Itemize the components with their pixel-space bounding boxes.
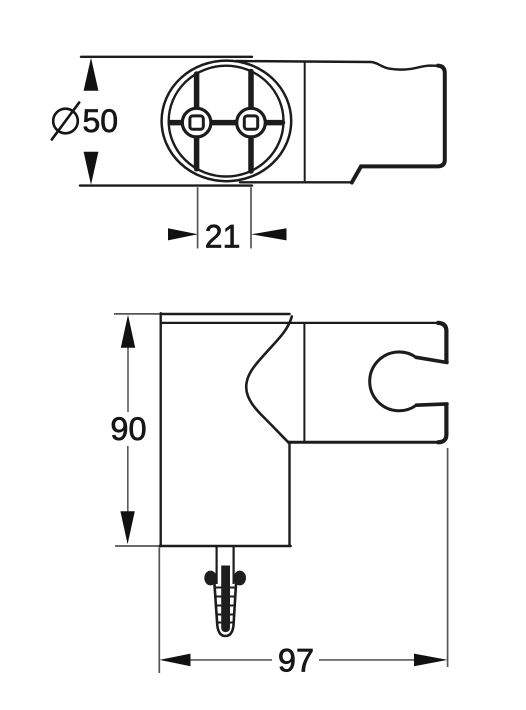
- wall plate left edge: [159, 313, 161, 546]
- dia-50 bottom extension line (tangent): [80, 184, 252, 186]
- arrow right: [414, 654, 448, 667]
- extension line top: [114, 313, 159, 315]
- anchor rib 3: [216, 605, 234, 607]
- svg-text:21: 21: [205, 219, 241, 255]
- head flange vertical line: [303, 324, 305, 442]
- bottom slot line: [416, 404, 447, 405]
- body top edge with dip: [236, 61, 439, 70]
- extension line left: [158, 548, 160, 674]
- screw shank left line: [216, 547, 218, 584]
- flange vertical line: [304, 62, 306, 182]
- outer ring of cup: [162, 61, 292, 182]
- extension line right: [250, 187, 252, 248]
- cradle arc: [370, 352, 417, 411]
- anchor wing right: [234, 571, 246, 586]
- wall plate right edge: [288, 442, 290, 546]
- arrow up: [121, 315, 135, 348]
- bar bottom line / head top edge: [161, 322, 436, 324]
- square hole right: [244, 116, 257, 129]
- wall plate bottom edge: [160, 545, 291, 548]
- square hole left: [190, 116, 203, 129]
- dia-50 top extension line (tangent): [81, 56, 252, 58]
- anchor body outline: [214, 575, 237, 637]
- arrow down: [84, 152, 99, 185]
- extension line bottom: [115, 545, 159, 547]
- arrow right: [251, 228, 286, 240]
- head right edge upper segment: [438, 323, 446, 362]
- inner ring of cup: [169, 66, 284, 177]
- dimension line right part: [319, 659, 414, 661]
- arrow down: [120, 511, 134, 544]
- svg-text:97: 97: [278, 643, 314, 679]
- diameter symbol: [53, 109, 78, 134]
- arrow left: [168, 228, 198, 240]
- arrow left: [160, 654, 191, 667]
- horizontal spoke: [171, 120, 283, 126]
- anchor wing left: [204, 571, 216, 586]
- wall plate top bar top line: [160, 313, 289, 316]
- anchor rib 2: [216, 596, 235, 598]
- arrow up: [84, 58, 99, 91]
- top slot line: [416, 357, 447, 362]
- vertical spoke left: [194, 74, 200, 169]
- svg-text:50: 50: [83, 103, 119, 139]
- concave neck profile curve: [246, 317, 292, 444]
- body bottom edge right of cup: [240, 181, 352, 183]
- anchor centre stripe: [221, 566, 230, 633]
- boss right: [237, 108, 266, 137]
- body right edge (thick) with rounded corners and bottom step: [352, 66, 445, 183]
- head right edge lower segment: [438, 405, 446, 443]
- dimension line lower part: [127, 446, 129, 512]
- anchor rib 1: [215, 587, 235, 589]
- anchor rib 5: [217, 622, 233, 624]
- anchor rib 4: [217, 614, 234, 616]
- dimension line left part: [190, 659, 272, 661]
- screw shank right line: [233, 547, 235, 584]
- head bottom edge: [289, 441, 438, 444]
- boss left: [182, 108, 211, 137]
- extension line right: [447, 448, 449, 667]
- extension line left: [197, 187, 199, 248]
- vertical spoke right: [248, 72, 254, 172]
- dimension line upper part: [127, 347, 129, 412]
- svg-text:90: 90: [110, 411, 146, 447]
